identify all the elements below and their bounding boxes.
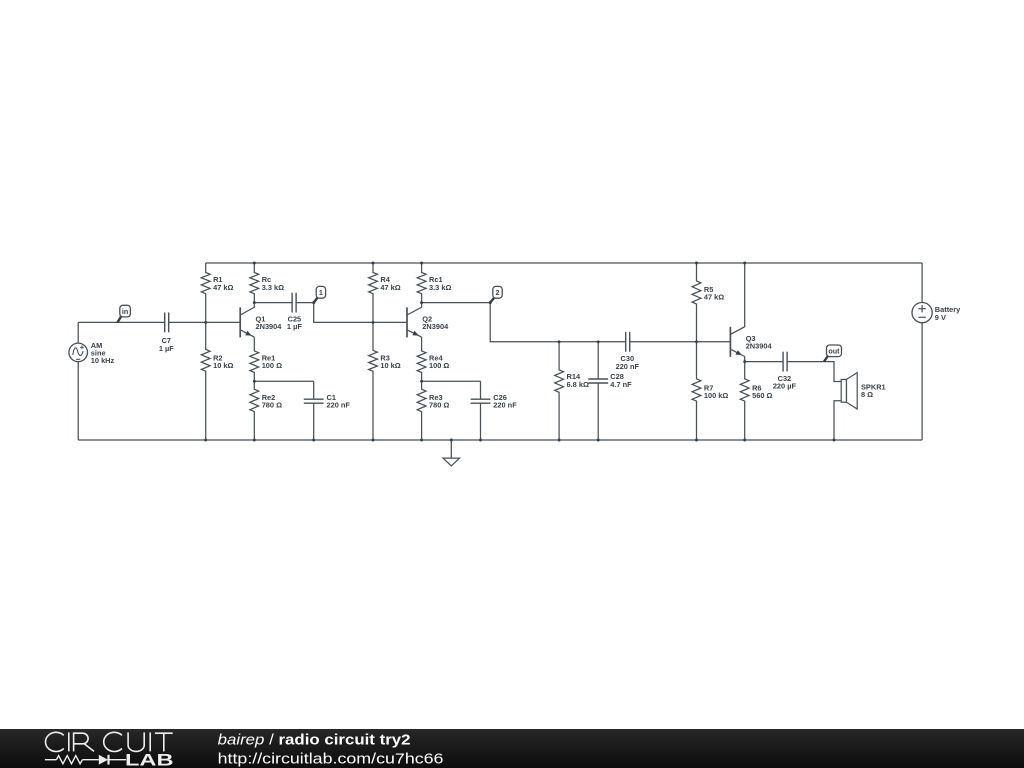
svg-text:3.3 kΩ: 3.3 kΩ	[429, 283, 451, 292]
junction	[372, 439, 375, 442]
battery BAT1 9V	[912, 303, 961, 323]
svg-text:10 kΩ: 10 kΩ	[213, 361, 233, 370]
svg-text:220 µF: 220 µF	[773, 382, 797, 391]
junction	[312, 439, 315, 442]
junction	[312, 301, 315, 304]
wire bottom ground rail	[78, 439, 922, 441]
capacitor C30	[616, 332, 640, 371]
svg-text:9 V: 9 V	[935, 313, 946, 322]
wire Re4/Re3 junction to C26	[422, 380, 481, 382]
junction	[597, 439, 600, 442]
resistor R7	[692, 342, 728, 440]
svg-text:220 nF: 220 nF	[616, 362, 640, 371]
resistor R14	[555, 342, 589, 440]
svg-text:1: 1	[319, 288, 323, 297]
junction	[253, 262, 256, 265]
svg-text:100 kΩ: 100 kΩ	[704, 391, 728, 400]
junction	[695, 439, 698, 442]
wire C28 bottom lead	[597, 383, 599, 440]
transistor Q3	[730, 263, 772, 357]
CircuitLab logo wordmark CIRCUIT	[46, 732, 173, 751]
junction	[204, 321, 207, 324]
svg-text:47 kΩ: 47 kΩ	[704, 292, 724, 301]
svg-text:560 Ω: 560 Ω	[752, 391, 772, 400]
speaker SPKR1	[841, 373, 885, 409]
junction	[743, 360, 746, 363]
junction	[450, 439, 453, 442]
wire C1 bottom lead	[313, 403, 315, 440]
capacitor C32	[773, 352, 797, 391]
junction	[420, 301, 423, 304]
svg-text:http://circuitlab.com/cu7hc66: http://circuitlab.com/cu7hc66	[218, 750, 444, 767]
svg-text:in: in	[122, 307, 128, 316]
wire Re1/Re2 junction to C1	[254, 380, 313, 382]
resistor R1	[201, 263, 233, 322]
svg-text:6.8 kΩ: 6.8 kΩ	[567, 380, 589, 389]
resistor R3	[369, 322, 401, 440]
svg-text:47 kΩ: 47 kΩ	[380, 283, 400, 292]
junction	[597, 340, 600, 343]
resistor Re1	[250, 337, 282, 381]
wire C32 to speaker top	[787, 362, 841, 382]
junction	[253, 439, 256, 442]
wire C1 top lead	[313, 381, 315, 399]
node 1 flag	[314, 286, 326, 302]
svg-text:780 Ω: 780 Ω	[429, 401, 449, 410]
svg-text:1 µF: 1 µF	[287, 322, 302, 331]
wire C30 to Q3 base	[630, 341, 731, 343]
resistor R5	[692, 263, 724, 342]
wire C26 bottom lead	[480, 403, 482, 440]
svg-text:3.3 kΩ: 3.3 kΩ	[262, 283, 284, 292]
svg-text:47 kΩ: 47 kΩ	[213, 283, 233, 292]
wire C26 top lead	[480, 381, 482, 399]
voltage source V1 AM sine	[69, 341, 115, 365]
svg-text:8 Ω: 8 Ω	[861, 390, 873, 399]
resistor R4	[369, 263, 401, 322]
svg-text:2N3904: 2N3904	[256, 322, 283, 331]
junction	[743, 439, 746, 442]
svg-text:2: 2	[496, 288, 500, 297]
svg-text:220 nF: 220 nF	[327, 401, 351, 410]
capacitor C7	[159, 313, 174, 353]
wire speaker bottom to ground rail	[834, 401, 841, 440]
wire node 1 down to Q2 base	[314, 303, 407, 323]
resistor Re3	[417, 381, 449, 440]
wire top supply rail	[206, 262, 922, 264]
junction	[372, 321, 375, 324]
wire node 2 down to C30	[490, 303, 626, 342]
capacitor C28	[588, 372, 632, 389]
svg-text:out: out	[828, 347, 840, 356]
wire Q1 collector to C25	[254, 302, 292, 304]
svg-text:2N3904: 2N3904	[746, 342, 773, 351]
capacitor C26	[471, 393, 518, 410]
wire source to C7	[78, 321, 165, 323]
svg-text:100 Ω: 100 Ω	[429, 361, 449, 370]
svg-text:1 µF: 1 µF	[159, 344, 174, 353]
svg-text:780 Ω: 780 Ω	[262, 401, 282, 410]
svg-text:100 Ω: 100 Ω	[262, 361, 282, 370]
transistor Q1	[240, 303, 282, 338]
resistor Rc	[250, 263, 284, 303]
node in flag	[118, 305, 131, 322]
wire C28 top lead	[597, 342, 599, 379]
junction	[253, 380, 256, 383]
resistor Re2	[250, 381, 282, 440]
junction	[558, 439, 561, 442]
junction	[253, 301, 256, 304]
svg-text:4.7 nF: 4.7 nF	[610, 380, 632, 389]
wire battery top lead	[921, 263, 923, 303]
junction	[833, 439, 836, 442]
wire source bottom lead	[77, 362, 79, 440]
wire Q3 emitter to C32	[745, 361, 783, 363]
resistor R2	[201, 322, 233, 440]
junction	[489, 301, 492, 304]
footer black bar	[0, 729, 1024, 768]
transistor Q2	[407, 303, 449, 338]
svg-text:LAB: LAB	[125, 751, 174, 768]
capacitor C1	[304, 393, 351, 410]
wire C7 to Q1 base	[169, 321, 241, 323]
junction	[743, 262, 746, 265]
CircuitLab logo resistor-diode glyph	[45, 755, 126, 765]
wire source top lead	[77, 322, 79, 343]
svg-text:10 kHz: 10 kHz	[91, 356, 115, 365]
node 2 flag	[490, 286, 502, 302]
svg-text:2N3904: 2N3904	[422, 322, 449, 331]
junction	[558, 340, 561, 343]
resistor Re4	[417, 337, 449, 381]
junction	[479, 439, 482, 442]
junction	[420, 262, 423, 265]
node out flag	[824, 345, 842, 362]
junction	[420, 439, 423, 442]
wire battery bottom lead	[921, 323, 923, 440]
junction	[204, 439, 207, 442]
wire C25 to node 1	[296, 302, 314, 304]
svg-text:bairep / radio circuit try2: bairep / radio circuit try2	[218, 732, 411, 748]
junction	[695, 262, 698, 265]
resistor R6	[740, 356, 772, 440]
wire Q2 collector to node 2	[422, 302, 491, 304]
svg-text:220 nF: 220 nF	[493, 401, 517, 410]
resistor Rc1	[417, 263, 451, 303]
junction	[695, 340, 698, 343]
svg-text:10 kΩ: 10 kΩ	[380, 361, 400, 370]
ground	[443, 440, 460, 466]
junction	[372, 262, 375, 265]
capacitor C25	[287, 293, 302, 331]
junction	[420, 380, 423, 383]
